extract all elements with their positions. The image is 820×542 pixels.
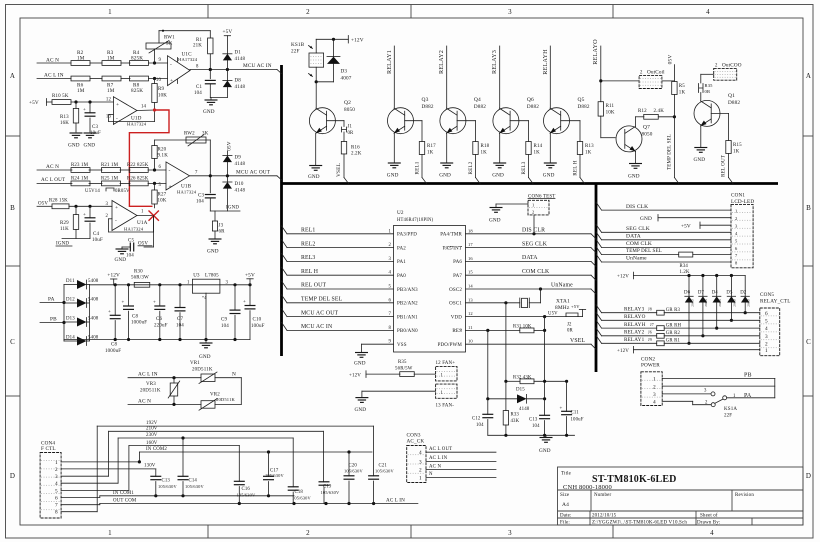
svg-text:+: + — [83, 108, 86, 113]
U2 right pin18 PA4/TMR — [440, 228, 473, 237]
svg-text:5: 5 — [388, 285, 391, 290]
svg-text:C8: C8 — [132, 315, 138, 320]
svg-text:R29: R29 — [60, 221, 69, 226]
svg-text:C13: C13 — [529, 418, 538, 423]
svg-text:21K: 21K — [193, 44, 202, 49]
power +5V to R10 — [29, 99, 52, 107]
svg-text:HT46R47(18PIN): HT46R47(18PIN) — [397, 218, 434, 223]
svg-text:DATA: DATA — [626, 234, 641, 240]
svg-text:RELAYO: RELAYO — [592, 39, 599, 65]
ground under Q1 — [694, 126, 708, 163]
svg-text:2: 2 — [306, 8, 310, 16]
net PB input — [40, 317, 66, 325]
transistor Q7 8050 — [601, 125, 653, 152]
svg-text:+12V: +12V — [617, 349, 629, 354]
connector OutCoil — [601, 69, 675, 88]
resistor R6 — [71, 76, 90, 94]
svg-text:RELAY1: RELAY1 — [624, 337, 645, 343]
U2 right pin12 VDD — [451, 311, 473, 320]
svg-text:D4: D4 — [712, 291, 719, 296]
svg-text:+5V: +5V — [681, 223, 691, 229]
svg-text:C: C — [806, 338, 811, 346]
svg-text:104: 104 — [476, 423, 484, 428]
svg-text:R13: R13 — [60, 115, 69, 120]
svg-text:2003: 2003 — [718, 299, 722, 307]
bus main horizontal — [282, 182, 779, 185]
wire pin12 VDD to J2 +5V — [466, 311, 567, 318]
svg-text:Revision: Revision — [735, 493, 754, 498]
wire U1A output — [137, 210, 154, 216]
net 05V above D9 — [227, 141, 233, 155]
wire pin11 RES — [466, 329, 520, 332]
svg-text:9: 9 — [388, 340, 391, 345]
U2 right pin15 PA7 — [453, 270, 473, 279]
capacitor C4 10uF — [83, 206, 103, 243]
resistor R24 1M — [71, 177, 90, 186]
svg-text:PA6: PA6 — [453, 260, 462, 265]
svg-text:D13: D13 — [66, 317, 75, 322]
diode D10 4148 — [223, 176, 246, 211]
column ticks bottom — [208, 525, 613, 538]
power +12V KS1B — [316, 36, 364, 44]
svg-text:825K: 825K — [131, 88, 143, 94]
svg-text:VDD: VDD — [451, 315, 463, 320]
svg-text:+: + — [169, 184, 172, 190]
svg-text:OutCOO: OutCOO — [722, 63, 742, 69]
svg-text:RW2: RW2 — [184, 132, 195, 137]
resistor R5 1K — [672, 82, 686, 178]
svg-text:R25 1M: R25 1M — [101, 177, 119, 182]
net OUT COM / AC L IN bottom line — [100, 498, 418, 506]
svg-text:RELAY3: RELAY3 — [491, 50, 498, 74]
connector FAN+ 12 — [436, 361, 458, 381]
resistor R32 43K — [504, 376, 568, 384]
svg-text:*4: *4 — [202, 295, 206, 300]
op-amp U1B HA17324 — [158, 162, 196, 195]
net O5V to R28 — [37, 201, 52, 206]
capacitor C18 105/630V — [288, 438, 312, 504]
red trace wire — [129, 110, 169, 206]
svg-text:105/630V: 105/630V — [185, 484, 204, 489]
svg-text:2: 2 — [640, 70, 643, 75]
capacitor C10 100uF — [243, 285, 265, 340]
svg-text:PB: PB — [744, 372, 752, 378]
svg-text:+: + — [153, 301, 156, 306]
svg-text:REL3: REL3 — [301, 255, 315, 261]
ground FAN- — [355, 391, 436, 413]
svg-text:3: 3 — [765, 334, 768, 340]
svg-text:C19: C19 — [323, 484, 332, 489]
svg-text:100uF: 100uF — [571, 417, 584, 422]
capacitor C3 10uF electrolytic — [83, 102, 101, 136]
ground under Q6 — [492, 133, 506, 178]
mcu U2 HT46R47 body — [394, 210, 466, 352]
svg-text:RW1: RW1 — [164, 36, 175, 41]
resistor R13 1K — [561, 121, 594, 178]
svg-text:1K: 1K — [733, 150, 740, 155]
node row3 junction — [153, 168, 156, 171]
diode D8 4148 — [223, 70, 246, 98]
capacitor C17 105/630V — [263, 452, 284, 496]
svg-text:4148: 4148 — [519, 407, 530, 412]
svg-text:104: 104 — [532, 424, 540, 429]
ground under Q4 — [439, 133, 453, 178]
svg-text:R13: R13 — [585, 144, 594, 149]
svg-text:GR R1: GR R1 — [666, 339, 681, 344]
wire pin14 OSC2 UnName to bus — [466, 283, 597, 294]
svg-text:1: 1 — [441, 391, 444, 396]
net 230V bus line — [118, 433, 293, 439]
svg-text:D882: D882 — [474, 104, 486, 110]
svg-text:REL OUT: REL OUT — [301, 283, 326, 289]
diode D6 2003 — [684, 276, 694, 345]
svg-text:2: 2 — [765, 341, 768, 347]
net AC L OUT (row 4) — [37, 177, 166, 183]
row ticks left — [6, 136, 21, 396]
svg-text:Number: Number — [594, 493, 611, 498]
diode D3 4007 — [315, 39, 352, 83]
svg-text:D882: D882 — [527, 104, 539, 110]
connector CON5 RELAY_CTL — [760, 292, 791, 356]
svg-text:R17: R17 — [427, 144, 436, 149]
node row2 junction — [153, 77, 156, 80]
svg-text:1: 1 — [735, 209, 737, 214]
svg-text:4148: 4148 — [235, 189, 246, 194]
diode bridge left rail — [63, 285, 65, 342]
svg-text:AC L OUT: AC L OUT — [429, 447, 452, 452]
svg-text:105/630V: 105/630V — [158, 484, 177, 489]
resistor R28 15K — [49, 199, 69, 209]
svg-text:10K: 10K — [606, 111, 615, 116]
svg-text:XTA1: XTA1 — [556, 298, 570, 304]
diode D7 2003 — [698, 276, 708, 338]
svg-text:1000uF: 1000uF — [131, 321, 147, 326]
wire R10 to U1D pin12 — [71, 100, 113, 103]
svg-text:DATA: DATA — [522, 255, 538, 261]
ground under J3 — [207, 239, 222, 255]
svg-text:HA17324: HA17324 — [177, 190, 197, 195]
net 160V bus line — [129, 441, 239, 446]
connector OutCOO — [701, 63, 742, 84]
svg-text:4: 4 — [419, 450, 422, 456]
wire CON4 pin4 to 230V — [61, 438, 118, 483]
svg-text:2: 2 — [735, 216, 737, 221]
svg-text:D882: D882 — [422, 104, 434, 110]
svg-text:+: + — [170, 78, 173, 84]
svg-text:RELAYO: RELAYO — [624, 314, 646, 320]
svg-text:UnName: UnName — [626, 256, 647, 262]
net VSEL into bus — [336, 163, 349, 184]
svg-text:U1A: U1A — [137, 220, 148, 226]
jumper J1 0R — [327, 121, 354, 136]
svg-text:D3: D3 — [341, 69, 348, 75]
wire R28 to U1A pin3 — [69, 205, 112, 208]
resistor R8 — [130, 76, 149, 94]
capacitor C13 105/630V — [150, 469, 177, 496]
capacitor C1 104 — [194, 70, 216, 98]
svg-text:D10: D10 — [235, 182, 244, 187]
regulator U3 L7805 — [187, 274, 229, 340]
svg-text:DIS CLK: DIS CLK — [626, 204, 648, 210]
svg-text:2012/10/15: 2012/10/15 — [592, 514, 617, 519]
svg-text:1000uF: 1000uF — [105, 349, 121, 354]
svg-text:C4: C4 — [93, 232, 99, 237]
svg-text:C16: C16 — [242, 487, 251, 492]
svg-text:210V: 210V — [146, 427, 158, 432]
svg-text:AC L IN: AC L IN — [44, 73, 64, 79]
svg-text:8: 8 — [196, 65, 199, 70]
svg-text:1M: 1M — [107, 56, 115, 62]
svg-text:R12: R12 — [638, 109, 647, 114]
svg-text:3: 3 — [388, 257, 391, 262]
svg-text:1: 1 — [765, 348, 768, 354]
svg-text:6R: 6R — [219, 230, 226, 235]
svg-text:REL H: REL H — [301, 269, 319, 275]
svg-text:20D511K: 20D511K — [192, 368, 213, 373]
wire varistor right vertical — [240, 378, 242, 405]
svg-text:C7: C7 — [177, 317, 183, 322]
svg-text:-: - — [115, 218, 117, 224]
wire CON1 pin3 +5V — [681, 222, 731, 229]
node red junction — [153, 108, 156, 111]
svg-text:5: 5 — [158, 183, 161, 188]
svg-text:A: A — [806, 72, 811, 80]
wire U2 pin3 REL3 — [282, 253, 407, 265]
svg-text:U2: U2 — [397, 210, 404, 216]
svg-text:16: 16 — [468, 256, 473, 261]
svg-text:+5V: +5V — [245, 272, 255, 278]
title block texts — [560, 472, 754, 526]
svg-text:Q6: Q6 — [527, 97, 534, 103]
svg-text:COM CLK: COM CLK — [626, 241, 652, 247]
svg-text:C5: C5 — [128, 239, 134, 244]
svg-text:VSS: VSS — [397, 343, 407, 348]
capacitor C9 104 — [221, 285, 241, 340]
U2 right pin11 RES — [452, 325, 472, 334]
connector CON3 AC_CK — [407, 432, 427, 482]
svg-text:105/630V: 105/630V — [344, 469, 363, 474]
svg-text:+: + — [122, 301, 125, 306]
svg-text:GND: GND — [115, 257, 127, 263]
svg-text:PA: PA — [48, 297, 55, 303]
column ticks top — [208, 5, 613, 19]
wire CON4 pin7 OUT COM line — [61, 504, 100, 505]
svg-text:1K: 1K — [534, 151, 541, 156]
svg-text:U5V14: U5V14 — [85, 189, 100, 194]
net REL3 into bus — [521, 161, 533, 183]
svg-text:PA3/PFD: PA3/PFD — [397, 233, 417, 238]
svg-text:KS1B: KS1B — [291, 42, 305, 48]
vertical from VDD junction — [544, 317, 546, 399]
resistor R20 9.1K — [152, 140, 168, 170]
U2 right pin17 PA5/INT — [443, 242, 474, 251]
svg-text:PB: PB — [50, 317, 57, 323]
wire U1A output down to 05V line — [144, 216, 154, 248]
net REL OUT into bus — [722, 155, 734, 183]
wire U2 pin4 REL H — [282, 267, 407, 279]
net RELAY3 label wire — [491, 46, 500, 108]
svg-text:230V: 230V — [146, 433, 158, 438]
svg-text:10: 10 — [156, 78, 162, 83]
bus entry MCU AC OUT — [277, 176, 282, 180]
net RELAYO label wire — [592, 39, 602, 102]
op-amp U1A HA17324 — [105, 201, 147, 232]
svg-text:OSC2: OSC2 — [449, 288, 462, 293]
svg-text:+: + — [108, 310, 111, 315]
connector CON1 LCD-LED — [731, 193, 754, 268]
svg-text:3: 3 — [105, 202, 108, 207]
vertical from RES junction — [487, 330, 489, 398]
resistor R11 10K — [598, 102, 615, 138]
resistor R21 1M — [101, 163, 121, 172]
varistor VR3 20D511K vertical — [140, 378, 180, 405]
svg-text:192V: 192V — [146, 421, 158, 426]
svg-text:RES: RES — [452, 329, 462, 334]
svg-text:+12V: +12V — [617, 275, 629, 280]
resistor R2 — [71, 50, 90, 65]
wire CON1 pin7 TEMP DEL SEL with R34 — [596, 247, 679, 255]
resistor R10 5K — [52, 94, 71, 104]
svg-text:KS1A: KS1A — [724, 407, 737, 412]
capacitor C12 104 — [472, 399, 493, 436]
svg-text:56R/5W: 56R/5W — [395, 366, 413, 371]
wire U2 pin9 VSS to ground — [354, 340, 407, 367]
svg-text:18: 18 — [468, 228, 473, 233]
svg-text:GND: GND — [539, 448, 551, 454]
svg-text:IN COM2: IN COM2 — [146, 447, 167, 452]
svg-text:20D511K: 20D511K — [216, 397, 236, 402]
svg-text:A4: A4 — [562, 502, 569, 508]
svg-text:REL1: REL1 — [415, 161, 421, 174]
wire CON4 pin6 IN COM1 line — [61, 496, 100, 498]
svg-text:U5V: U5V — [548, 311, 558, 316]
svg-text:HA17324: HA17324 — [127, 122, 147, 127]
svg-text:1M: 1M — [77, 88, 85, 94]
svg-text:AC N: AC N — [46, 164, 59, 170]
net AC N (row 3) — [37, 164, 166, 170]
svg-text:1K: 1K — [585, 151, 592, 156]
svg-text:+: + — [83, 213, 86, 218]
svg-text:9.1K: 9.1K — [158, 154, 169, 159]
svg-text:1: 1 — [187, 281, 190, 286]
svg-text:8: 8 — [55, 510, 58, 516]
svg-text:R24 1M: R24 1M — [71, 177, 89, 182]
svg-text:LCD-LED: LCD-LED — [731, 199, 754, 205]
wire CON3 AC L IN — [426, 456, 496, 461]
svg-text:2: 2 — [653, 384, 656, 390]
wire U1B output MCU AC OUT — [190, 170, 278, 178]
svg-text:3: 3 — [704, 388, 707, 393]
svg-text:C1: C1 — [196, 85, 202, 90]
net RELAY1 label wire — [386, 46, 395, 108]
svg-text:D: D — [10, 472, 15, 480]
svg-text:C11: C11 — [571, 411, 580, 416]
wire CON1 pin6 COM CLK — [596, 239, 731, 247]
diode D12 5408 — [64, 298, 99, 308]
svg-text:GND: GND — [354, 361, 366, 367]
svg-text:REL2: REL2 — [301, 241, 315, 247]
svg-text:R1: R1 — [196, 38, 202, 43]
svg-text:CON5: CON5 — [760, 292, 774, 298]
svg-text:+12V: +12V — [107, 273, 120, 279]
transistor Q1 D882 — [694, 93, 740, 126]
wire pin13 OSC1 — [466, 301, 520, 304]
svg-text:GND: GND — [203, 109, 215, 115]
svg-text:Title: Title — [561, 472, 572, 477]
wire pin18 DIS CLR to bus — [466, 228, 597, 239]
connector CON6 TEST — [489, 194, 556, 234]
svg-text:D: D — [806, 472, 811, 480]
svg-text:-: - — [170, 62, 172, 68]
net REL1 into bus — [415, 161, 427, 183]
svg-text:L7805: L7805 — [205, 274, 219, 279]
capacitor C16 105/630V — [234, 446, 256, 504]
svg-text:3: 3 — [508, 8, 512, 16]
svg-text:11: 11 — [468, 325, 473, 330]
svg-text:D15: D15 — [516, 388, 525, 393]
U1A feedback loop — [109, 216, 154, 233]
svg-text:C10: C10 — [253, 318, 262, 323]
svg-text:A: A — [10, 72, 15, 80]
svg-text:RELAY1: RELAY1 — [386, 50, 393, 74]
wire CON2 pin2 — [662, 385, 775, 387]
svg-text:+: + — [115, 205, 118, 211]
svg-text:CON3: CON3 — [407, 432, 421, 438]
ground rail bottom — [64, 338, 250, 341]
ground under C5 — [115, 247, 129, 263]
svg-text:J7: J7 — [650, 322, 654, 327]
svg-text:AC L IN: AC L IN — [429, 456, 448, 461]
jumper J3 6R — [212, 211, 225, 239]
svg-text:GR R2: GR R2 — [666, 331, 681, 336]
svg-text:PB3/AN3: PB3/AN3 — [397, 288, 418, 293]
svg-text:R20: R20 — [158, 148, 167, 153]
svg-text:1: 1 — [733, 394, 736, 399]
svg-text:2: 2 — [105, 214, 108, 219]
wire RELAY3 GR R3 — [596, 305, 760, 315]
wire RELAY2 GR R2 — [596, 328, 760, 338]
svg-text:Q1: Q1 — [728, 93, 735, 99]
wire CON4 pin5 to 160V — [61, 446, 129, 491]
svg-text:PA7: PA7 — [453, 274, 462, 279]
svg-text:4148: 4148 — [235, 162, 246, 167]
resistor R3 — [102, 50, 121, 65]
svg-text:4: 4 — [55, 481, 58, 487]
net PA input — [40, 297, 66, 305]
diode output rail — [88, 285, 90, 342]
svg-text:12: 12 — [106, 98, 112, 103]
wire CON4 pin8 to 192V — [61, 426, 97, 512]
resistor R9 10K — [152, 79, 167, 111]
svg-text:104: 104 — [126, 254, 134, 259]
svg-text:N: N — [232, 371, 236, 377]
capacitor C6 220uF — [153, 285, 168, 340]
svg-text:POWER: POWER — [641, 363, 660, 369]
svg-text:7: 7 — [55, 503, 58, 509]
net REL2 into bus — [468, 161, 480, 183]
capacitor C8b 1000uF — [122, 285, 148, 340]
svg-text:CNH 8000-18000: CNH 8000-18000 — [563, 484, 612, 491]
column labels bottom — [108, 529, 714, 537]
ground under C1/D8 — [203, 98, 227, 116]
svg-text:COM CLK: COM CLK — [522, 269, 550, 275]
svg-text:C: C — [10, 338, 15, 346]
svg-text:Q4: Q4 — [474, 97, 481, 103]
wire CON1 pin8 UnName — [596, 254, 731, 262]
svg-text:AC L OUT: AC L OUT — [41, 177, 66, 183]
jumper J2 0R — [566, 304, 586, 334]
wire CON1 pin5 DATA — [596, 232, 731, 240]
